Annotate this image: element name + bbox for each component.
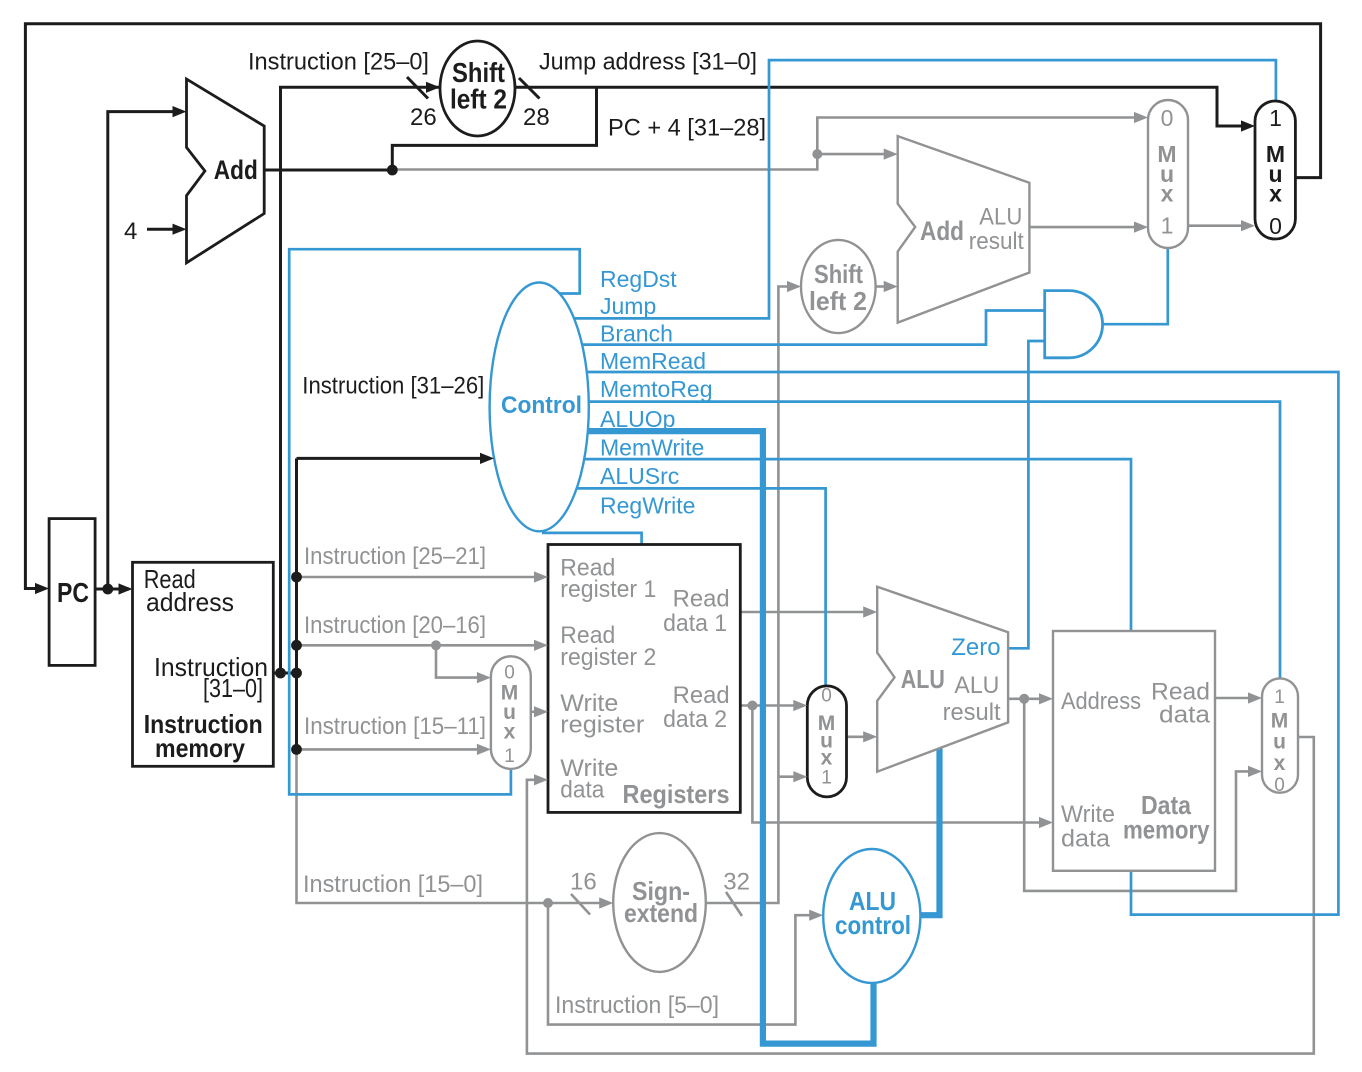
- wire: PC output branch up to Add input: [108, 112, 175, 589]
- mux PCSrc labels: [1157, 105, 1176, 239]
- mux RegDst: [491, 656, 531, 769]
- wire: AND gate output to PCSrc mux select: [1103, 248, 1168, 324]
- mux PCSrc: [1148, 100, 1188, 248]
- svg-text:register 2: register 2: [560, 644, 656, 671]
- arrowhead into MemtoReg mux 0: [1248, 766, 1262, 777]
- wire: Add output (PC+4): [264, 169, 392, 172]
- wire: sign-extend branch to ALUSrc mux input 1: [778, 775, 795, 778]
- bus slash 32: [726, 892, 742, 916]
- arrowhead into MemtoReg mux 1: [1248, 692, 1262, 703]
- svg-text:Control: Control: [501, 392, 582, 419]
- svg-text:Instruction [20–16]: Instruction [20–16]: [304, 612, 486, 639]
- svg-text:MemtoReg: MemtoReg: [600, 376, 712, 402]
- arrowhead into jump mux input 1: [1241, 120, 1255, 131]
- control unit ellipse: [490, 283, 589, 532]
- arrowhead into RegDst mux 1: [477, 744, 491, 755]
- wire: read data 2 to ALUSrc mux input 0: [740, 704, 795, 707]
- svg-text:data: data: [1061, 826, 1111, 853]
- svg-text:Instruction [31–26]: Instruction [31–26]: [302, 373, 484, 400]
- wire: RegDst mux output to write register: [531, 710, 536, 713]
- junction dot Instruction 15-0: [543, 898, 553, 908]
- svg-text:RegDst: RegDst: [600, 266, 677, 292]
- shift left 2 (branch) ellipse: [801, 240, 876, 333]
- arrowhead into write register: [534, 706, 548, 717]
- wire: instruction memory output row: [273, 672, 296, 675]
- arrowhead into sign-extend: [599, 897, 613, 908]
- arrowhead into branch Add bottom: [884, 281, 898, 292]
- wire: Branch control signal to AND gate: [578, 311, 1045, 345]
- svg-text:data 2: data 2: [663, 706, 727, 733]
- svg-text:M: M: [1271, 709, 1289, 732]
- arrowhead into ALUSrc mux 0: [793, 700, 807, 711]
- svg-text:4: 4: [124, 218, 137, 245]
- junction dot PC+4: [387, 165, 398, 176]
- arrowhead into ALUSrc mux 1: [793, 771, 807, 782]
- junction dot Instruction 20-16 branch: [431, 640, 441, 650]
- junction dot Instruction 25-21: [291, 572, 302, 583]
- svg-text:Jump: Jump: [600, 293, 656, 319]
- wire: Instruction [25-0] up and jump address bus to jump mux: [281, 87, 1244, 673]
- junction dot Instruction 20-16: [291, 640, 302, 651]
- mux jump labels: [1266, 105, 1285, 239]
- svg-text:1: 1: [1161, 213, 1174, 239]
- svg-text:register: register: [560, 712, 644, 739]
- arrowhead into ALU bottom: [863, 731, 877, 742]
- mux RegDst labels: [501, 663, 519, 767]
- svg-text:16: 16: [570, 869, 597, 896]
- adder Add (branch target): [898, 136, 1030, 323]
- svg-text:data: data: [1159, 702, 1211, 729]
- svg-text:data 1: data 1: [663, 610, 727, 637]
- svg-text:memory: memory: [1123, 814, 1210, 844]
- wire: RegWrite control signal: [542, 533, 642, 545]
- svg-text:Jump address [31–0]: Jump address [31–0]: [539, 49, 757, 76]
- svg-text:left 2: left 2: [450, 84, 507, 115]
- arrowhead into branch Add top: [884, 149, 898, 160]
- svg-text:Instruction [25–0]: Instruction [25–0]: [248, 49, 429, 76]
- wire: Jump control signal: [570, 60, 1276, 318]
- svg-text:Zero: Zero: [951, 634, 1000, 661]
- junction dot instruction bus B: [291, 668, 302, 679]
- wire: PC+4 branch into branch Add top input: [817, 153, 885, 156]
- wire: MemWrite control signal: [581, 459, 1131, 631]
- svg-text:Write: Write: [1061, 801, 1115, 828]
- wire: MemtoReg control signal: [585, 402, 1280, 679]
- svg-text:26: 26: [410, 104, 437, 131]
- svg-text:ALUOp: ALUOp: [600, 406, 675, 432]
- wire: Instruction [15-11] to RegDst mux input 1: [297, 748, 480, 751]
- svg-text:1: 1: [821, 768, 832, 789]
- data memory box: [1053, 631, 1215, 871]
- svg-text:Read: Read: [673, 586, 730, 613]
- svg-text:ALU: ALU: [901, 664, 945, 694]
- arrowhead 4 into Add: [173, 224, 187, 235]
- instruction memory box: [133, 562, 274, 766]
- arrowhead into ALU control: [809, 910, 823, 921]
- svg-text:0: 0: [1274, 775, 1285, 796]
- junction dot PC+4 to branch add: [812, 149, 822, 159]
- adder Add (PC+4): [187, 79, 265, 263]
- mux jump: [1255, 101, 1295, 239]
- arrowhead into read register 1: [534, 571, 548, 582]
- arrowhead into PCSrc mux 0: [1134, 112, 1148, 123]
- svg-text:0: 0: [1269, 213, 1282, 239]
- arrowhead into jump mux input 0: [1241, 220, 1255, 231]
- arrowhead into RegDst mux 0: [477, 672, 491, 683]
- svg-text:Add: Add: [920, 216, 964, 246]
- arrowhead into write data (registers): [534, 774, 548, 785]
- junction dot read data 2: [747, 701, 757, 711]
- svg-text:Instruction [15–11]: Instruction [15–11]: [304, 713, 486, 740]
- junction dot ALU result: [1019, 694, 1029, 704]
- arrowhead into shift left 2 (branch): [787, 281, 801, 292]
- svg-text:[31–0]: [31–0]: [203, 673, 263, 703]
- wire: ALUSrc mux output to ALU: [847, 735, 866, 738]
- arrowhead into Control: [480, 453, 494, 464]
- svg-text:32: 32: [723, 869, 750, 896]
- arrowhead into read address: [119, 583, 133, 594]
- svg-text:Instruction [5–0]: Instruction [5–0]: [555, 992, 719, 1019]
- svg-text:x: x: [504, 721, 516, 744]
- svg-text:register 1: register 1: [560, 576, 656, 603]
- wire: sign-extend output up to shift left 2: [706, 287, 789, 904]
- arrowhead into ALU top: [863, 606, 877, 617]
- svg-text:0: 0: [821, 686, 832, 707]
- svg-text:x: x: [1274, 752, 1286, 775]
- svg-text:PC + 4 [31–28]: PC + 4 [31–28]: [608, 115, 766, 142]
- shift left 2 (jump) ellipse: [440, 41, 515, 136]
- wire: Instruction [15-0] to sign-extend: [297, 750, 602, 903]
- arrowhead into data memory address: [1039, 693, 1053, 704]
- wire: instruction bus vertical: [295, 458, 298, 750]
- wire: MemtoReg mux output around bottom to write data: [527, 737, 1314, 1054]
- svg-text:extend: extend: [624, 898, 698, 928]
- svg-text:result: result: [943, 699, 1001, 726]
- arrowhead into shift left 2 (jump): [426, 82, 440, 93]
- svg-text:left 2: left 2: [809, 286, 867, 316]
- ALU control ellipse: [823, 849, 920, 983]
- wire: branch Add result to PCSrc mux input 1: [1029, 226, 1136, 229]
- wire: ALU result to data memory address: [1008, 697, 1041, 700]
- bus slash 28: [519, 78, 540, 99]
- svg-text:0: 0: [1161, 105, 1174, 131]
- arrowhead into PC: [35, 583, 49, 594]
- wire: constant 4 into Add: [147, 228, 175, 231]
- wire: data memory read data to MemtoReg mux input 1: [1215, 697, 1250, 700]
- svg-text:x: x: [1269, 180, 1282, 206]
- junction dot instruction bus A: [275, 668, 286, 679]
- wire: read data 2 branch to data memory write data: [752, 706, 1041, 823]
- svg-text:Add: Add: [214, 155, 258, 185]
- svg-text:Registers: Registers: [623, 779, 730, 809]
- wire: PC+4 gray to branch Add and PCSrc mux: [392, 118, 1136, 170]
- arrowhead into Add top: [173, 106, 187, 117]
- wire: Instruction [5-0] to ALU control: [548, 903, 811, 1025]
- wire: Instruction [20-16] to read register 2: [297, 644, 537, 647]
- wire: MemRead control signal: [583, 372, 1338, 915]
- wire: Zero flag to AND gate: [1008, 341, 1045, 648]
- mux MemtoReg: [1262, 678, 1298, 792]
- svg-text:address: address: [146, 587, 234, 617]
- wire: jump mux output loop to PC input: [25, 24, 1320, 589]
- AND gate: [1045, 291, 1103, 358]
- wire: ALUOp control signal to ALU control: [575, 431, 874, 1044]
- mux MemtoReg labels: [1271, 687, 1289, 796]
- svg-text:ALU: ALU: [979, 204, 1022, 231]
- svg-text:data: data: [560, 777, 605, 804]
- mux ALUSrc labels: [818, 686, 836, 789]
- svg-text:Branch: Branch: [600, 321, 673, 347]
- svg-text:x: x: [821, 747, 833, 770]
- svg-text:1: 1: [1269, 105, 1282, 131]
- arrowhead into data memory write data: [1039, 817, 1053, 828]
- svg-text:x: x: [1161, 180, 1174, 206]
- junction dot Instruction 15-11: [291, 744, 302, 755]
- wire: ALUSrc control signal: [573, 488, 826, 686]
- junction dot PC output: [102, 584, 113, 595]
- svg-text:memory: memory: [155, 733, 245, 763]
- svg-text:Read: Read: [673, 682, 730, 709]
- bus slash 16: [571, 894, 590, 915]
- svg-text:control: control: [835, 910, 911, 940]
- svg-text:u: u: [1273, 731, 1286, 754]
- svg-text:28: 28: [523, 104, 550, 131]
- wire: ALU result branch to MemtoReg mux input 0: [1024, 699, 1250, 891]
- wire: Instruction [20-16] branch to RegDst mux input 0: [436, 645, 479, 677]
- wire: PCSrc mux output to jump mux input 0: [1188, 224, 1243, 227]
- svg-text:MemRead: MemRead: [600, 348, 706, 374]
- wire: Instruction [25-21] to read register 1: [297, 576, 537, 579]
- wire: PC+4 [31-28] branch to jump address bus: [392, 87, 596, 170]
- wire: shift left 2 output to branch Add: [876, 285, 885, 288]
- wire: Instruction [31-26] to Control: [297, 457, 483, 460]
- svg-text:1: 1: [504, 746, 515, 767]
- wire: PC output to instruction memory read address: [95, 588, 121, 591]
- arrowhead into read register 2: [534, 640, 548, 651]
- svg-text:PC: PC: [57, 577, 89, 608]
- svg-text:ALUSrc: ALUSrc: [600, 463, 679, 489]
- PC register box: [49, 519, 95, 666]
- bus slash 26: [407, 77, 428, 99]
- mux ALUSrc: [807, 686, 846, 797]
- svg-text:Instruction [25–21]: Instruction [25–21]: [304, 543, 486, 570]
- svg-text:Instruction [15–0]: Instruction [15–0]: [303, 871, 483, 898]
- svg-text:1: 1: [1274, 687, 1285, 708]
- wire: read data 1 to ALU: [740, 611, 865, 614]
- svg-text:result: result: [969, 228, 1024, 255]
- svg-text:RegWrite: RegWrite: [600, 493, 695, 519]
- wire: RegDst control signal: [289, 249, 580, 794]
- sign-extend ellipse: [613, 833, 706, 972]
- arrowhead into PCSrc mux 1: [1134, 222, 1148, 233]
- ALU: [877, 587, 1008, 772]
- wire: ALU control output to ALU: [920, 748, 939, 915]
- registers box: [548, 545, 740, 813]
- svg-text:Address: Address: [1061, 688, 1141, 715]
- svg-text:0: 0: [504, 663, 515, 684]
- svg-text:ALU: ALU: [954, 672, 999, 699]
- svg-text:Shift: Shift: [814, 259, 863, 289]
- svg-text:MemWrite: MemWrite: [600, 435, 704, 461]
